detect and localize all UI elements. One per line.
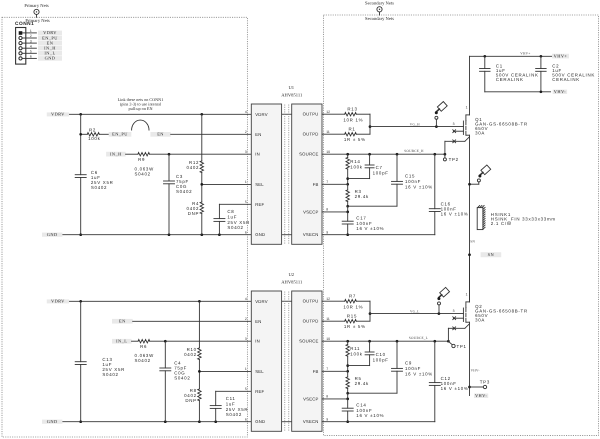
svg-text:S0402: S0402 [226,412,242,417]
svg-text:3: 3 [245,337,247,341]
svg-text:SEL: SEL [255,182,264,187]
resistor R7 [322,294,370,310]
svg-text:U2: U2 [288,272,294,277]
svg-text:30A: 30A [475,131,485,136]
connector CONN1 [15,21,36,64]
wire VSECP [322,206,349,213]
svg-text:C9: C9 [405,361,412,366]
svg-text:0402: 0402 [184,352,197,357]
wire REF [216,391,252,421]
svg-text:VHV+: VHV+ [520,52,530,56]
svg-text:VDRV: VDRV [255,299,268,304]
svg-text:EN: EN [255,319,261,324]
svg-text:100pF: 100pF [373,357,389,362]
wire FB [322,370,348,372]
svg-text:10R 1%: 10R 1% [343,304,363,309]
svg-text:GND: GND [47,232,58,237]
net name VG_H [410,122,420,126]
net label VHV- bottom [474,393,488,398]
wire VG net [370,125,463,128]
svg-text:EN_PU: EN_PU [112,132,128,137]
net label GND [42,419,62,424]
svg-text:AHV85111: AHV85111 [281,280,303,285]
resistor R3 29.4k [346,184,369,207]
annotation: link nets note [118,97,164,111]
svg-text:OUTPD: OUTPD [303,132,319,137]
svg-text:SOURCE_H: SOURCE_H [404,149,424,153]
wire SOURCE net [322,153,446,156]
svg-text:29.4k: 29.4k [355,194,369,199]
svg-text:C11: C11 [226,396,236,401]
svg-text:0.063W: 0.063W [135,166,155,171]
svg-text:SOURCE: SOURCE [299,152,319,157]
svg-text:EN: EN [157,132,164,137]
svg-text:12: 12 [326,110,330,114]
svg-text:3: 3 [245,150,247,154]
svg-text:GND: GND [255,419,265,424]
svg-text:0.063W: 0.063W [135,353,155,358]
svg-text:R3: R3 [355,189,362,194]
svg-text:IN: IN [255,152,260,157]
resistor R4 (0402 DNP) [187,184,204,234]
net name VG_L [410,309,420,313]
svg-text:7: 7 [326,180,328,184]
svg-text:VDRV: VDRV [51,111,65,116]
svg-text:1: 1 [245,367,247,371]
resistor R1 [322,127,370,143]
wire VDRV rail [69,113,251,116]
svg-text:100k: 100k [88,136,100,141]
svg-text:GND: GND [255,232,265,237]
CONN1 net labels [38,30,62,61]
svg-text:6: 6 [245,418,247,422]
wire VSECP [322,393,349,400]
wire SEL [200,183,251,186]
net label VDRV [47,298,69,303]
svg-text:AHV85111: AHV85111 [281,93,303,98]
wire gate drive join [369,114,372,134]
svg-text:6: 6 [30,55,32,59]
svg-text:R2: R2 [89,128,96,133]
wire VG net [370,312,463,315]
svg-text:8: 8 [326,208,328,212]
net label VHV+ [552,53,569,58]
resistor R5 29.4k [346,371,369,394]
svg-text:29.4k: 29.4k [355,381,369,386]
svg-text:C7: C7 [376,165,383,170]
svg-text:9: 9 [326,231,328,235]
wire FB [322,183,348,185]
svg-text:VDRV: VDRV [255,112,268,117]
capacitor C16 100nF [429,154,468,235]
svg-text:12: 12 [326,297,330,301]
jumper arc EN_PU to EN [132,120,149,130]
resistor R10 (0402) [184,301,201,371]
svg-text:100nF: 100nF [405,366,421,371]
svg-text:VSECN: VSECN [303,232,319,237]
net label EN_PU [109,132,132,137]
svg-text:1: 1 [245,180,247,184]
svg-text:R13: R13 [347,107,357,112]
svg-text:VHV-: VHV- [475,393,487,398]
resistor R13 [322,107,370,123]
svg-text:SN: SN [470,239,475,243]
probe connector J2 (SN) [470,165,491,184]
svg-text:1R ± 5%: 1R ± 5% [344,324,366,329]
svg-text:1: 1 [466,106,468,110]
wire SOURCE net [322,340,450,343]
op-amp-style gate driver U2 AHV85111 [245,272,330,431]
secondary nets inner label [365,16,394,21]
wire REF [219,204,251,234]
net name VHV- on wire [471,368,480,372]
secondary nets boundary (dashed) [324,15,599,435]
svg-text:2: 2 [245,317,247,321]
wire VSECN [322,421,435,423]
wire Q2 source to VHV- [468,322,471,395]
svg-text:VG_L: VG_L [410,309,420,313]
svg-text:4: 4 [245,110,247,114]
svg-text:VHV-: VHV- [471,368,480,372]
wire VHV+ rail [470,55,552,58]
net name VHV+ on wire [520,52,530,56]
svg-text:R5: R5 [355,376,362,381]
wire gate drive join [369,301,372,321]
capacitor C10 100pF [348,341,389,365]
svg-text:100k: 100k [350,165,362,170]
svg-text:IN_H: IN_H [110,152,122,157]
svg-text:R1: R1 [348,127,355,132]
svg-text:16 V ±10%: 16 V ±10% [356,226,384,231]
secondary nets title symbol [365,0,394,15]
svg-text:5: 5 [245,200,247,204]
svg-text:S0402: S0402 [135,358,151,363]
svg-text:2: 2 [30,34,32,38]
svg-text:10: 10 [326,337,330,341]
svg-text:16 V ±10%: 16 V ±10% [405,185,433,190]
probe connector J3 (VG_L) [437,287,450,313]
svg-text:2.1 C/W: 2.1 C/W [491,221,512,226]
svg-text:VG_H: VG_H [410,122,420,126]
svg-text:FB: FB [313,182,319,187]
svg-text:7: 7 [326,367,328,371]
capacitor C12 100nF [429,341,468,422]
svg-text:1: 1 [466,293,468,297]
svg-text:S0402: S0402 [176,189,192,194]
svg-text:DNP: DNP [185,398,196,403]
svg-text:DNP: DNP [188,211,199,216]
svg-text:REF: REF [255,389,264,394]
wire VDRV rail [69,300,251,303]
svg-text:6: 6 [245,231,247,235]
capacitor C14 100nF [342,399,384,423]
transistor Q2 GAN-GS-66508B-TR [448,255,527,342]
net label VDRV [47,111,69,116]
heatsink HSINK1 [477,206,556,230]
svg-text:1R ± 5%: 1R ± 5% [344,137,366,142]
wire GND rail [62,233,251,236]
svg-text:16 V ±10%: 16 V ±10% [441,212,469,217]
svg-text:VHV-: VHV- [554,89,566,94]
probe connector J1 (VG_H) [435,102,448,127]
svg-text:CERALINK: CERALINK [552,77,580,82]
resistor R15 [322,314,370,330]
capacitor C2 CERALINK [536,56,595,92]
svg-text:3: 3 [453,122,455,126]
wire EN to U2 [133,320,252,322]
svg-text:U1: U1 [288,85,294,90]
capacitor C4 [160,341,191,422]
net label IN_L [112,339,132,344]
svg-text:FB: FB [313,369,319,374]
svg-text:OUTPD: OUTPD [303,319,319,324]
capacitor C3 [164,154,193,235]
svg-text:0402: 0402 [187,165,200,170]
svg-text:R9: R9 [138,157,145,162]
svg-text:REF: REF [255,202,264,207]
svg-text:GND: GND [45,56,56,61]
svg-text:TP3: TP3 [480,380,490,385]
capacitor C9 100nF [348,341,433,393]
wire SEL (U2) [198,370,251,373]
capacitor C6 [75,170,113,190]
svg-text:GND: GND [47,419,58,424]
svg-text:OUTPU: OUTPU [303,299,319,304]
svg-text:VSECP: VSECP [303,396,319,401]
svg-text:5: 5 [245,387,247,391]
svg-text:S0402: S0402 [135,172,151,177]
resistor R11 100k [346,341,363,372]
test point TP2 [443,154,458,162]
wire VSECN [322,234,435,236]
wire EN to U1 [171,133,252,135]
svg-text:S0402: S0402 [91,185,107,190]
primary nets title symbol [24,3,49,17]
wire VDRV to GND vertical [79,301,82,423]
svg-text:1uF: 1uF [227,214,237,219]
svg-text:11: 11 [326,130,330,134]
svg-text:30A: 30A [475,318,485,323]
svg-text:pull-up on EN: pull-up on EN [129,106,153,111]
svg-text:Primary Nets: Primary Nets [24,3,49,8]
svg-text:S0402: S0402 [102,372,118,377]
transistor Q1 GAN-GS-66508B-TR [445,56,528,154]
svg-text:5: 5 [30,50,32,54]
capacitor C13 [75,357,125,377]
net label VHV- top [553,89,567,94]
capacitor C7 100pF [348,154,389,178]
svg-text:VHV+: VHV+ [554,53,568,58]
svg-text:100k: 100k [350,352,362,357]
primary nets boundary (dashed) [2,17,247,437]
svg-text:IN: IN [255,339,260,344]
svg-text:OUTPU: OUTPU [303,112,319,117]
svg-text:Secondary Nets: Secondary Nets [365,16,394,21]
svg-text:16 V ±10%: 16 V ±10% [356,413,384,418]
svg-text:C15: C15 [405,174,415,179]
test point TP3 [470,380,491,389]
svg-text:C8: C8 [227,209,234,214]
svg-text:4: 4 [245,297,247,301]
svg-text:8: 8 [326,395,328,399]
net label GND [42,232,62,237]
resistor R8 (0402 DNP) [184,371,201,421]
net label EN [150,132,170,137]
resistor R12 (0402) [187,114,204,184]
svg-text:Secondary Nets: Secondary Nets [365,0,394,5]
svg-text:CONN1: CONN1 [15,21,34,27]
svg-text:VSECN: VSECN [303,419,319,424]
capacitor C1 CERALINK [480,56,539,92]
primary nets inner label [25,18,50,23]
resistor R14 100k [346,154,363,185]
svg-text:10R 1%: 10R 1% [343,117,363,122]
svg-text:S0402: S0402 [174,375,190,380]
svg-text:1uF: 1uF [226,401,236,406]
resistor R6 [132,340,252,364]
wire SN switch node [468,135,471,302]
svg-text:R11: R11 [350,346,360,351]
svg-text:S0402: S0402 [227,225,243,230]
net label EN (low side) [112,319,133,324]
svg-text:100nF: 100nF [405,179,421,184]
net label IN_H [106,152,126,157]
svg-text:3: 3 [30,39,32,43]
resistor R2 pull-up [79,128,108,141]
wire VHV- rail [485,90,551,93]
svg-text:R6: R6 [140,344,147,349]
svg-text:R15: R15 [347,314,357,319]
svg-text:25V X5R: 25V X5R [227,220,250,225]
svg-text:3: 3 [453,309,455,313]
svg-text:EN: EN [255,132,261,137]
svg-text:VSECP: VSECP [303,209,319,214]
svg-text:SOURCE: SOURCE [299,339,319,344]
svg-text:C10: C10 [376,352,386,357]
svg-text:TP2: TP2 [449,157,459,162]
svg-text:VDRV: VDRV [51,298,65,303]
resistor R9 [126,153,252,177]
capacitor C11 [210,396,248,417]
svg-text:TP1: TP1 [457,344,467,349]
capacitor C17 100nF [342,212,384,236]
svg-text:25V X5R: 25V X5R [226,407,249,412]
svg-text:IN_L: IN_L [116,339,127,344]
svg-text:CERALINK: CERALINK [496,77,524,82]
wire VDRV to GND vertical [79,114,82,236]
wire GND rail [62,420,251,423]
op-amp-style gate driver U1 AHV85111 [245,85,330,244]
svg-text:SN: SN [488,252,495,257]
svg-text:16 V ±10%: 16 V ±10% [441,386,469,391]
svg-text:SEL: SEL [255,369,264,374]
svg-text:SOURCE_L: SOURCE_L [409,336,428,340]
svg-text:16 V ±10%: 16 V ±10% [405,372,433,377]
svg-text:R14: R14 [350,159,360,164]
svg-text:11: 11 [326,317,330,321]
svg-text:10: 10 [326,150,330,154]
svg-text:2: 2 [245,130,247,134]
svg-text:EN: EN [119,319,126,324]
svg-text:100pF: 100pF [373,170,389,175]
capacitor C15 100nF [348,154,433,206]
net name SOURCE_L [409,336,428,340]
net name SOURCE_H [404,149,424,153]
svg-text:R7: R7 [349,294,356,299]
node SN label [470,239,502,257]
svg-text:9: 9 [326,418,328,422]
test point TP1 [448,341,466,349]
capacitor C8 [214,209,250,230]
svg-text:4: 4 [30,44,32,48]
svg-text:1: 1 [30,29,32,33]
